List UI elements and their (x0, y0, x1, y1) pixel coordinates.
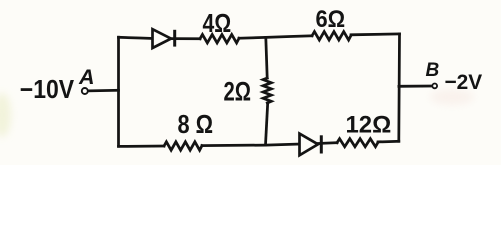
svg-text:12Ω: 12Ω (346, 112, 392, 139)
wire bottom 8ohm-to-junction-to-diode segment (202, 144, 300, 146)
svg-text:2Ω: 2Ω (224, 77, 251, 108)
diode D2 cathode bar (320, 135, 323, 153)
paper smudge left (0, 93, 11, 137)
resistor R2 6ohm zigzag (312, 32, 351, 40)
diode D1 cathode bar (173, 30, 176, 47)
svg-text:A: A (78, 65, 95, 89)
svg-text:4Ω: 4Ω (203, 9, 232, 37)
svg-text:−10V: −10V (20, 76, 75, 104)
diode D2 (bottom) triangle (300, 134, 319, 156)
wire bottom diode-to-12ohm segment (318, 141, 337, 145)
resistor R3 2ohm zigzag (vertical) (263, 78, 271, 103)
wire bottom 12ohm-to-right-corner segment (378, 140, 399, 143)
wire right vertical (397, 34, 400, 141)
wire top left segment (corner to diode) (119, 37, 153, 38)
wire top 4ohm-to-junction-to-6ohm segment (239, 36, 312, 38)
wire left vertical (117, 37, 120, 146)
svg-text:6Ω: 6Ω (316, 5, 346, 32)
resistor R5 12ohm zigzag (337, 139, 378, 147)
wire top 6ohm-to-right-corner segment (351, 33, 400, 37)
wire terminal B lead (399, 85, 432, 88)
terminal B circle (432, 84, 437, 89)
svg-text:8 Ω: 8 Ω (178, 111, 214, 139)
wire middle vertical top (junction to 2ohm) (266, 37, 267, 78)
wire middle vertical bottom (2ohm to bottom junction) (266, 103, 268, 145)
wire top diode-to-4ohm segment (171, 37, 200, 40)
wire terminal A lead (88, 89, 118, 92)
svg-text:−2V: −2V (445, 71, 483, 94)
svg-text:B: B (426, 60, 440, 81)
terminal A circle (82, 88, 88, 94)
wire bottom left segment (corner to 8ohm) (119, 145, 165, 148)
resistor R1 4ohm zigzag (200, 35, 239, 43)
diode D1 (top) triangle (153, 29, 172, 48)
paper smudge right (430, 89, 474, 105)
resistor R4 8ohm zigzag (164, 142, 202, 150)
